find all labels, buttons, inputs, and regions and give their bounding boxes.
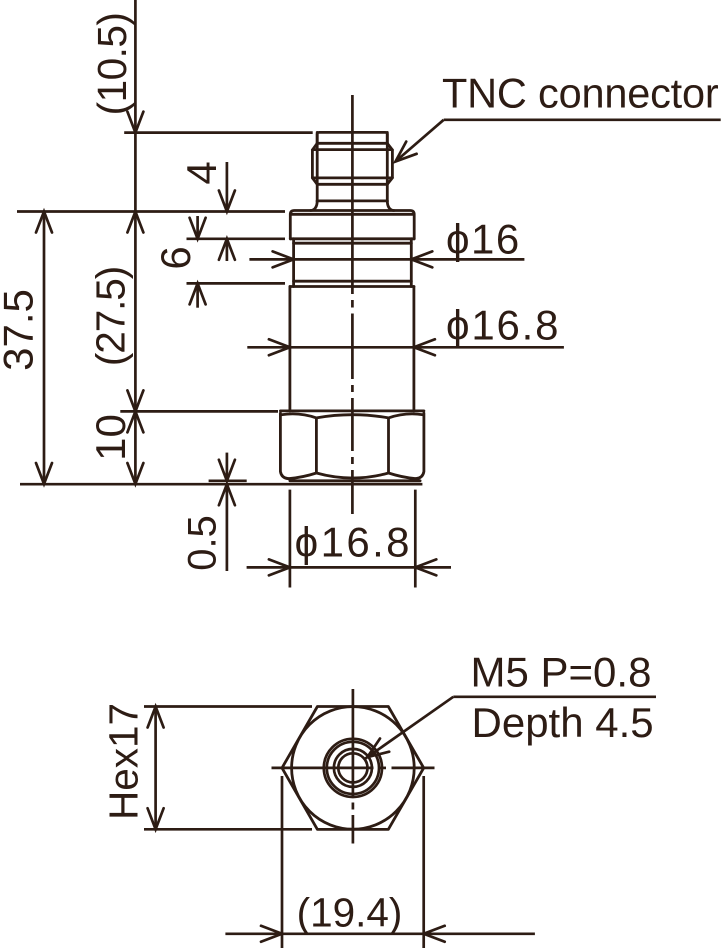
extension line at cap bottom y=239.2 bbox=[187, 237, 286, 240]
arrow right at (289.9,567.4) bbox=[269, 559, 290, 575]
arrow right at (282,933.8) bbox=[261, 926, 282, 942]
body circle (bottom view) bbox=[292, 707, 415, 830]
svg-text:ϕ16.8: ϕ16.8 bbox=[295, 519, 412, 566]
arrow down at (155.6,829.3) bbox=[148, 808, 164, 829]
arrow down at (135.4,132.6) bbox=[127, 112, 143, 133]
long extension / base bottom line y=484.2 bbox=[20, 483, 422, 486]
dimension line (10.5)/(27.5)/10 column x=135.4 bbox=[134, 0, 137, 484]
dimension 4 at x=226.9 bbox=[226, 162, 229, 212]
arrow down at (44,484) bbox=[36, 463, 52, 484]
dimension (19.4) line y=933.8 bbox=[225, 932, 535, 935]
extension line at nut top y=411.4 bbox=[120, 410, 278, 413]
TNC connector neck bbox=[311, 201, 394, 211]
svg-text:10: 10 bbox=[87, 414, 134, 461]
svg-text:TNC connector: TNC connector bbox=[442, 70, 719, 117]
hexagon (bottom view) bbox=[282, 707, 424, 830]
svg-text:Depth 4.5: Depth 4.5 bbox=[472, 699, 654, 746]
dimension 0.5 at x=226.9 bbox=[226, 453, 229, 481]
arrow down at (135.4,484) bbox=[127, 463, 143, 484]
svg-text:(19.4): (19.4) bbox=[297, 890, 403, 936]
bottom phi16.8 dimension line y=567.4 bbox=[247, 566, 451, 569]
arrow left at (413.9,347.3) bbox=[414, 339, 435, 355]
thread chamfer circle bbox=[324, 739, 382, 797]
TNC connector side lines through knurl bbox=[316, 132, 319, 201]
dimension Hex17 line x=155.6 bbox=[154, 707, 157, 830]
arrow down at (226.9,480.8) bbox=[219, 460, 235, 481]
body cap bbox=[290, 211, 414, 239]
clamp ring (phi16 section) bbox=[294, 239, 412, 287]
svg-text:(27.5): (27.5) bbox=[88, 267, 134, 366]
arrow up at (226.9,484.2) bbox=[219, 484, 235, 505]
dimension phi16.8 line y=347.3 bbox=[247, 346, 564, 349]
arrow up at (155.6,706.5) bbox=[148, 707, 164, 728]
svg-text:ϕ16.8: ϕ16.8 bbox=[446, 302, 560, 349]
short extension for 0.5 at base top bbox=[209, 479, 247, 482]
bottom view: vertical centerline bbox=[352, 689, 355, 844]
vertical centerline (side view) bbox=[351, 95, 354, 514]
arrow up at (226.9,239.2) bbox=[219, 239, 235, 260]
arrow down at (197.6,239.2) bbox=[190, 218, 206, 239]
leader TNC connector bbox=[396, 120, 721, 162]
extension line at ring bottom y=283.4 bbox=[187, 282, 286, 285]
svg-text:ϕ16: ϕ16 bbox=[446, 216, 521, 263]
svg-text:6: 6 bbox=[152, 246, 199, 269]
arrow up at (197.6,283.4) bbox=[190, 283, 206, 304]
base plate bbox=[290, 479, 420, 482]
arrow down at (226.9,211.5) bbox=[219, 191, 235, 212]
svg-text:4: 4 bbox=[178, 161, 225, 184]
main body (phi16.8 section) bbox=[290, 287, 414, 412]
arrow up at (44,211.5) bbox=[36, 212, 52, 233]
arrow left at (415.3,567.4) bbox=[415, 559, 436, 575]
thread chamfer inner circle bbox=[327, 742, 379, 794]
svg-text:0.5: 0.5 bbox=[181, 515, 225, 571]
extension line at body cap top y=211.5 bbox=[17, 210, 285, 213]
TNC connector knurl nut bbox=[312, 143, 392, 184]
arrow up at (135.4,211.5) bbox=[127, 212, 143, 233]
arrow right at (293.6,259.4) bbox=[273, 251, 294, 267]
extension line at connector top y=132.6 bbox=[124, 131, 313, 134]
svg-text:Hex17: Hex17 bbox=[101, 703, 147, 820]
svg-text:37.5: 37.5 bbox=[0, 289, 42, 371]
dimension line 37.5 x=44 bbox=[43, 212, 46, 485]
thread minor circle bbox=[338, 753, 367, 782]
arrow left at (411.3,259.4) bbox=[411, 251, 432, 267]
thread major circle bbox=[334, 749, 372, 787]
dimension Hex17 extension lines bbox=[144, 705, 312, 708]
arrow down at (135.4,411.4) bbox=[127, 390, 143, 411]
dimension phi16 line y=259.4 bbox=[249, 258, 524, 261]
dimension (19.4) extension lines bbox=[281, 776, 284, 948]
arrow left at (423.7,933.8) bbox=[424, 926, 445, 942]
dimension 6 at x=197.6 bbox=[196, 216, 199, 239]
leader M5 thread bbox=[364, 697, 656, 760]
bottom phi16.8 extension lines bbox=[289, 490, 292, 588]
arrow up at (135.4,411.4) bbox=[127, 411, 143, 432]
svg-text:(10.5): (10.5) bbox=[89, 13, 135, 116]
TNC connector top rim bbox=[317, 132, 387, 143]
hex nut (side view) bbox=[280, 411, 424, 479]
bottom view: horizontal centerline bbox=[272, 767, 435, 770]
arrow right at (289.9,347.3) bbox=[269, 339, 290, 355]
svg-text:M5 P=0.8: M5 P=0.8 bbox=[471, 649, 652, 696]
